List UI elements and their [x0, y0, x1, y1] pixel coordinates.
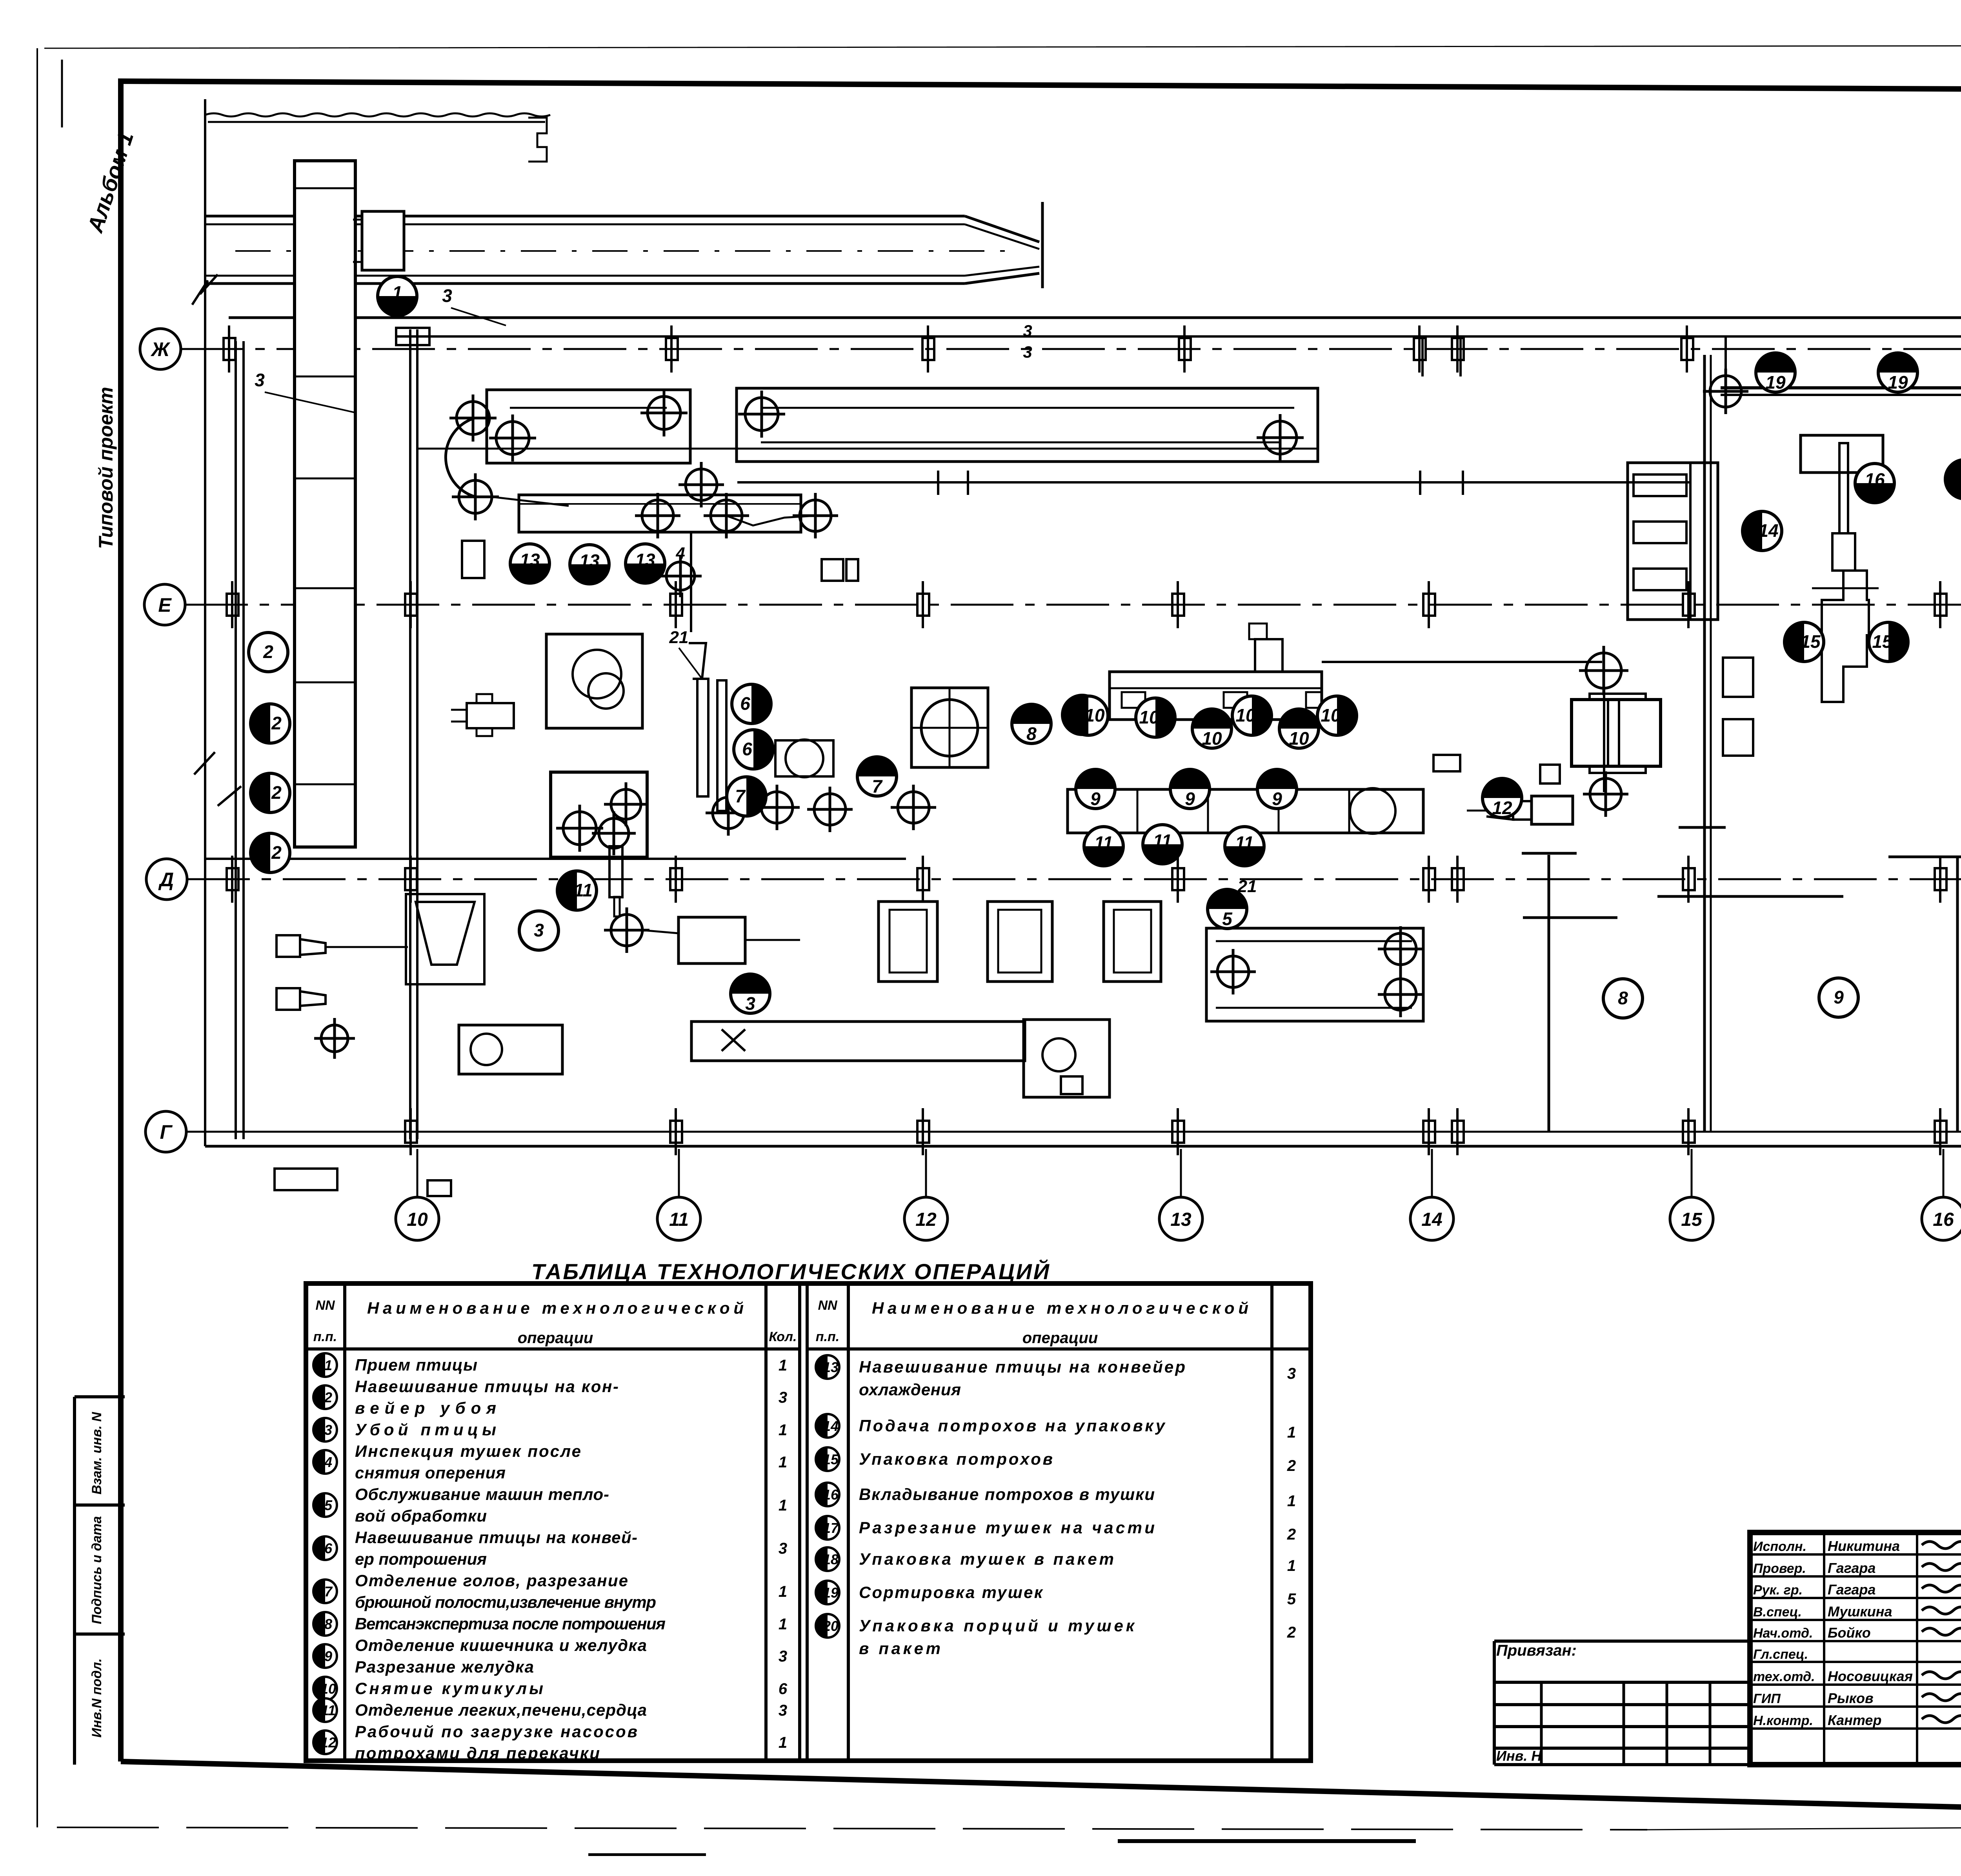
svg-text:2: 2	[271, 713, 282, 733]
washer machine	[1206, 928, 1423, 1021]
svg-text:ер потрошения: ер потрошения	[355, 1550, 487, 1568]
svg-text:1: 1	[324, 1357, 332, 1373]
killing machine box	[459, 1025, 562, 1074]
svg-text:12: 12	[915, 1209, 937, 1230]
svg-text:10: 10	[1139, 707, 1159, 727]
svg-text:10: 10	[1289, 728, 1309, 749]
svg-text:3: 3	[324, 1422, 332, 1438]
svg-text:Рыков: Рыков	[1828, 1690, 1874, 1706]
axis row Д	[146, 859, 187, 900]
svg-text:Вкладывание потрохов в тушки: Вкладывание потрохов в тушки	[859, 1485, 1155, 1503]
svg-text:1: 1	[1287, 1557, 1296, 1574]
pos marker 6	[734, 730, 773, 769]
svg-text:9: 9	[1185, 789, 1195, 809]
svg-text:Носовицкая: Носовицкая	[1828, 1668, 1913, 1684]
small boxes right of rack	[1723, 658, 1753, 697]
misc small rects left area	[275, 1169, 337, 1190]
svg-text:2: 2	[1287, 1624, 1296, 1641]
giblets elevator cross machine	[1839, 443, 1848, 533]
svg-text:NN: NN	[818, 1298, 838, 1313]
ramp centerline	[235, 250, 1020, 252]
column tick	[922, 325, 934, 373]
svg-text:4: 4	[324, 1454, 332, 1470]
svg-text:Сортировка тушек: Сортировка тушек	[859, 1583, 1043, 1602]
svg-text:брюшной полости,извлечение вну: брюшной полости,извлечение внутр	[355, 1593, 656, 1611]
svg-text:21: 21	[669, 628, 689, 647]
svg-text:Е: Е	[158, 594, 172, 616]
pos marker 11	[1143, 825, 1182, 864]
column tick	[1172, 856, 1184, 903]
svg-text:Навешивание птицы на конвей-: Навешивание птицы на конвей-	[355, 1528, 637, 1547]
svg-text:Н.контр.: Н.контр.	[1753, 1713, 1813, 1728]
svg-text:13: 13	[823, 1359, 839, 1375]
wall grid10	[409, 329, 411, 1139]
svg-text:14: 14	[1421, 1209, 1442, 1230]
loop1 left drop curve	[446, 418, 475, 497]
pos marker 16	[1062, 695, 1102, 734]
svg-text:Гагара: Гагара	[1828, 1560, 1876, 1576]
bottom pulleys row	[706, 790, 751, 836]
svg-text:Подпись и дата: Подпись и дата	[89, 1516, 104, 1624]
svg-text:6: 6	[324, 1540, 333, 1556]
svg-text:1: 1	[1287, 1424, 1296, 1441]
svg-text:2: 2	[1287, 1457, 1296, 1474]
grid column 10	[417, 1149, 418, 1197]
pos marker 15	[1785, 622, 1824, 662]
svg-text:10: 10	[407, 1209, 428, 1230]
title block	[1750, 1532, 1961, 1765]
chill conveyor top right	[1721, 386, 1961, 389]
column tick	[405, 856, 417, 903]
bottom scan streak	[1118, 1839, 1416, 1843]
column tick	[1452, 1108, 1464, 1155]
pos marker 7	[857, 757, 897, 796]
svg-text:13: 13	[1170, 1209, 1192, 1230]
pos marker 1	[378, 276, 417, 316]
svg-text:Г: Г	[160, 1121, 173, 1143]
pos marker 10	[1232, 696, 1272, 735]
svg-text:14: 14	[823, 1418, 839, 1434]
column tick	[670, 581, 682, 628]
column tick	[917, 856, 929, 903]
svg-text:Кантер: Кантер	[1828, 1712, 1881, 1728]
svg-text:2: 2	[263, 642, 273, 662]
receiving platform strip	[295, 161, 355, 847]
tech ops table frame	[306, 1283, 1311, 1761]
column tick	[1423, 1108, 1435, 1155]
pos marker 9	[1076, 769, 1115, 809]
svg-text:Разрезание желудка: Разрезание желудка	[355, 1658, 534, 1676]
svg-text:Никитина: Никитина	[1828, 1538, 1900, 1554]
monorail through loops	[417, 448, 1318, 450]
giblets washer	[1572, 700, 1661, 766]
svg-text:15: 15	[1872, 631, 1893, 652]
giblets pump	[1532, 796, 1573, 824]
pos marker 3	[519, 911, 558, 950]
column tick	[1683, 1108, 1695, 1155]
hanging conveyor loop 2	[737, 388, 1318, 462]
column tick	[666, 325, 678, 373]
grid column 11	[678, 1149, 680, 1197]
canopy end bracket	[528, 118, 547, 162]
stunner units	[277, 935, 300, 957]
svg-text:3: 3	[779, 1389, 787, 1406]
svg-text:снятия оперения: снятия оперения	[355, 1463, 506, 1482]
svg-text:Ветсанэкспертиза после потроше: Ветсанэкспертиза после потрошения	[355, 1614, 666, 1633]
svg-text:17: 17	[823, 1520, 839, 1536]
svg-text:п.п.: п.п.	[816, 1329, 839, 1344]
column tick	[1935, 1108, 1946, 1155]
plucker squares	[879, 902, 937, 982]
svg-text:10: 10	[1202, 728, 1222, 749]
svg-text:20: 20	[822, 1618, 839, 1634]
svg-text:14: 14	[1758, 520, 1778, 541]
pos marker 10	[1279, 709, 1319, 749]
partition wall x4346	[1703, 355, 1706, 1132]
svg-text:Инв. Н: Инв. Н	[1496, 1748, 1542, 1764]
svg-text:3: 3	[255, 370, 265, 390]
svg-text:Кол.: Кол.	[769, 1329, 797, 1344]
svg-text:7: 7	[872, 776, 883, 796]
svg-text:Убой птицы: Убой птицы	[355, 1420, 496, 1439]
svg-text:Д: Д	[158, 869, 174, 891]
pos marker 2	[251, 773, 290, 813]
pos marker 10	[1192, 709, 1232, 749]
svg-text:9: 9	[324, 1648, 332, 1664]
pos marker 2	[251, 704, 290, 743]
svg-text:1: 1	[779, 1583, 787, 1600]
svg-text:3: 3	[745, 993, 755, 1014]
funnel	[689, 643, 706, 679]
pos marker 2	[249, 633, 288, 672]
svg-text:Привязан:: Привязан:	[1496, 1642, 1577, 1659]
pos marker 11	[1084, 827, 1123, 866]
pos marker 11	[557, 871, 597, 910]
svg-text:В.спец.: В.спец.	[1753, 1605, 1802, 1620]
column tick	[1935, 856, 1946, 903]
svg-text:Мушкина: Мушкина	[1828, 1603, 1892, 1620]
column tick	[917, 1108, 929, 1155]
svg-text:3: 3	[1023, 322, 1032, 340]
column tick	[1683, 856, 1695, 903]
svg-text:3: 3	[1287, 1365, 1296, 1382]
grid column 15	[1691, 1149, 1693, 1197]
receiving ramp	[205, 215, 965, 218]
svg-text:8: 8	[1618, 988, 1628, 1008]
motor unit	[467, 703, 514, 728]
svg-text:1: 1	[779, 1616, 787, 1633]
partition wall x4991 L-shape	[1888, 856, 1961, 858]
pos marker 14	[1743, 511, 1782, 551]
column tick	[917, 581, 929, 628]
svg-text:19: 19	[1765, 372, 1786, 393]
partition wall x3949	[1548, 855, 1550, 1132]
svg-text:12: 12	[320, 1734, 336, 1751]
svg-text:10: 10	[1084, 705, 1105, 725]
svg-text:Нач.отд.: Нач.отд.	[1753, 1626, 1813, 1641]
big machine with circle	[911, 688, 988, 767]
pos marker 5	[1208, 889, 1247, 929]
small box left of 13 circles	[462, 541, 484, 578]
svg-text:3: 3	[442, 285, 452, 306]
evisceration overhead machine	[1110, 672, 1322, 720]
svg-text:операции: операции	[1022, 1329, 1098, 1347]
svg-text:Прием птицы: Прием птицы	[355, 1356, 477, 1374]
svg-text:вой обработки: вой обработки	[355, 1507, 487, 1525]
hanging conveyor loop 1	[487, 390, 690, 463]
svg-text:NN: NN	[315, 1298, 335, 1313]
svg-text:15: 15	[1681, 1209, 1703, 1230]
svg-text:11: 11	[1153, 831, 1172, 851]
svg-text:Навешивание птицы на кон-: Навешивание птицы на кон-	[355, 1377, 618, 1396]
giblets rack right	[1628, 463, 1718, 620]
pos marker 7	[727, 777, 766, 816]
svg-text:1: 1	[392, 282, 402, 303]
svg-text:2: 2	[271, 842, 282, 863]
axis row Г	[146, 1111, 186, 1152]
svg-text:6: 6	[740, 693, 750, 714]
svg-text:13: 13	[520, 550, 540, 570]
pos marker 10	[1069, 696, 1108, 735]
column tick	[1452, 325, 1464, 373]
bottom wall double line	[205, 1145, 1961, 1148]
svg-text:Инв.N подл.: Инв.N подл.	[89, 1658, 104, 1738]
grid column 13	[1180, 1149, 1182, 1197]
svg-text:Бойко: Бойко	[1828, 1625, 1871, 1641]
pos marker 10	[1136, 698, 1175, 737]
section mark breaks	[192, 274, 218, 305]
svg-text:11: 11	[669, 1209, 689, 1230]
kill conveyor bar	[519, 495, 801, 532]
svg-text:Рабочий по загрузке насосов: Рабочий по загрузке насосов	[355, 1722, 637, 1741]
pos marker 13	[570, 545, 609, 584]
pos marker 18	[1945, 460, 1961, 499]
svg-text:21: 21	[1237, 877, 1257, 896]
svg-text:3: 3	[534, 920, 544, 940]
svg-text:15: 15	[823, 1451, 839, 1467]
svg-text:в пакет: в пакет	[859, 1639, 940, 1658]
control pult	[1433, 755, 1460, 771]
canopy wavy line	[205, 113, 550, 116]
svg-text:6: 6	[742, 739, 752, 759]
pos marker 9	[1257, 769, 1297, 809]
pos marker 8	[1603, 979, 1643, 1018]
pos marker 6	[732, 684, 771, 723]
axis row Е	[144, 584, 185, 625]
column tick	[1681, 325, 1693, 373]
unloader box	[362, 211, 404, 270]
pos marker 2	[251, 833, 290, 873]
column tick	[1414, 325, 1426, 373]
pos marker 13	[510, 544, 549, 583]
svg-text:16: 16	[1933, 1209, 1954, 1230]
svg-text:5: 5	[1287, 1591, 1296, 1608]
chill conveyor left end	[1703, 369, 1748, 414]
svg-text:13: 13	[635, 550, 655, 570]
svg-text:11: 11	[1235, 833, 1254, 853]
svg-text:10: 10	[1321, 705, 1341, 725]
building top wall	[229, 316, 1961, 319]
svg-text:18: 18	[823, 1551, 839, 1567]
svg-text:15: 15	[1800, 631, 1821, 652]
svg-text:Гл.спец.: Гл.спец.	[1753, 1647, 1808, 1662]
svg-text:9: 9	[1834, 987, 1844, 1007]
svg-text:1: 1	[779, 1422, 787, 1439]
axis row Ж	[140, 329, 181, 369]
svg-text:Гагара: Гагара	[1828, 1582, 1876, 1598]
svg-text:1: 1	[779, 1357, 787, 1374]
outer thin border	[44, 45, 1961, 93]
column tick	[405, 1108, 417, 1155]
svg-text:2: 2	[1287, 1526, 1296, 1543]
kill line rail	[205, 858, 906, 860]
gizzard conveyor line	[1322, 661, 1602, 663]
giblets hopper	[1801, 435, 1883, 473]
loop machine with circle	[775, 740, 833, 776]
column tick	[1172, 1108, 1184, 1155]
svg-text:11: 11	[321, 1702, 335, 1718]
svg-text:8: 8	[1026, 723, 1037, 744]
column tick	[670, 1108, 682, 1155]
column tick	[1423, 856, 1435, 903]
svg-text:Исполн.: Исполн.	[1753, 1539, 1806, 1554]
column tick	[405, 581, 417, 628]
svg-text:Взам. инв. N: Взам. инв. N	[89, 1411, 104, 1494]
overhead rail y1230	[737, 481, 1690, 484]
svg-text:1: 1	[779, 1497, 787, 1514]
bleed chute	[609, 846, 622, 897]
pos marker 8	[1012, 704, 1051, 744]
svg-text:19: 19	[823, 1585, 839, 1601]
ramp end stop	[1041, 202, 1044, 288]
svg-text:Обслуживание машин тепло-: Обслуживание машин тепло-	[355, 1485, 609, 1503]
grid column 14	[1431, 1149, 1433, 1197]
pos marker 13	[626, 544, 665, 583]
svg-text:5: 5	[1222, 909, 1233, 929]
scald tank machine	[546, 634, 642, 728]
defeather narrow units	[697, 679, 708, 796]
svg-text:9: 9	[1090, 789, 1101, 809]
svg-text:16: 16	[823, 1487, 839, 1503]
pos marker 19	[1878, 353, 1917, 393]
left column line	[204, 99, 206, 1146]
svg-text:1: 1	[1287, 1492, 1296, 1510]
svg-text:11: 11	[1094, 833, 1113, 853]
bleeding funnel	[406, 894, 484, 984]
svg-text:19: 19	[1888, 372, 1908, 393]
svg-text:11: 11	[574, 880, 593, 900]
pos marker 3	[731, 974, 770, 1014]
svg-text:8: 8	[324, 1616, 332, 1632]
svg-text:16: 16	[1865, 469, 1885, 490]
svg-text:2: 2	[271, 782, 282, 803]
pos marker 9	[1170, 769, 1210, 809]
column tick	[227, 581, 238, 628]
svg-text:3: 3	[1023, 343, 1032, 361]
pos marker 10	[1317, 696, 1357, 735]
column tick	[1172, 581, 1184, 628]
svg-text:2: 2	[324, 1389, 332, 1405]
pos marker 9	[1819, 978, 1858, 1017]
svg-text:10: 10	[320, 1681, 336, 1697]
column tick	[1179, 325, 1191, 373]
gizzard trough	[1068, 789, 1423, 833]
svg-text:9: 9	[1272, 789, 1282, 809]
svg-text:3: 3	[779, 1540, 787, 1557]
pos marker 15	[1869, 622, 1908, 662]
left wall double	[235, 341, 237, 1139]
chill room partitions	[1523, 916, 1617, 919]
svg-text:Отделение голов, разрезание: Отделение голов, разрезание	[355, 1571, 628, 1590]
svg-text:Типовой проект: Типовой проект	[95, 387, 117, 549]
svg-text:1: 1	[779, 1734, 787, 1751]
svg-text:5: 5	[324, 1497, 333, 1513]
grid column 12	[925, 1149, 927, 1197]
svg-text:охлаждения: охлаждения	[859, 1380, 961, 1399]
svg-text:Рук. гр.: Рук. гр.	[1753, 1583, 1803, 1598]
scalder long	[691, 1022, 1025, 1061]
pos marker 16	[1855, 464, 1894, 503]
svg-text:Отделение кишечника и желудк: Отделение кишечника и желудка	[355, 1636, 647, 1654]
pos marker 12	[1483, 778, 1522, 818]
column tick	[1683, 581, 1695, 628]
grid column 16	[1943, 1149, 1945, 1197]
svg-text:тех.отд.: тех.отд.	[1753, 1669, 1815, 1684]
left margin stamp strip	[73, 1397, 76, 1765]
svg-text:Разрезание тушек на части: Разрезание тушек на части	[859, 1518, 1155, 1537]
svg-text:10: 10	[1235, 705, 1256, 725]
svg-text:1: 1	[779, 1454, 787, 1471]
svg-text:7: 7	[324, 1583, 333, 1600]
svg-text:3: 3	[779, 1702, 787, 1719]
transfer detail	[726, 516, 815, 525]
column tick	[1452, 856, 1464, 903]
svg-text:Провер.: Провер.	[1753, 1561, 1806, 1576]
svg-text:п.п.: п.п.	[313, 1329, 337, 1344]
column tick	[224, 325, 235, 373]
column tick	[670, 856, 682, 903]
bleed tunnel box	[551, 772, 647, 857]
svg-text:3: 3	[779, 1648, 787, 1665]
svg-text:13: 13	[579, 551, 600, 571]
pos marker 11	[1225, 827, 1264, 866]
svg-text:ТАБЛИЦА ТЕХНОЛОГИЧЕСКИХ ОПЕ: ТАБЛИЦА ТЕХНОЛОГИЧЕСКИХ ОПЕРАЦИЙ	[531, 1259, 1050, 1284]
svg-text:12: 12	[1492, 798, 1512, 818]
column tick	[1935, 581, 1946, 628]
svg-text:7: 7	[735, 786, 746, 806]
svg-text:Упаковка порций и тушек: Упаковка порций и тушек	[859, 1616, 1135, 1635]
svg-text:ГИП: ГИП	[1753, 1691, 1781, 1706]
svg-text:Ж: Ж	[150, 338, 171, 360]
svg-text:Отделение легких,печени,сердц: Отделение легких,печени,сердца	[355, 1701, 647, 1719]
column tick	[227, 856, 238, 903]
pos marker 19	[1756, 353, 1795, 393]
column tick	[1423, 581, 1435, 628]
svg-text:6: 6	[779, 1680, 788, 1698]
svg-text:операции: операции	[518, 1329, 593, 1347]
